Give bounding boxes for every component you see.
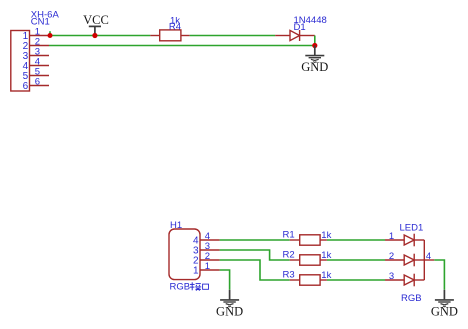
connector H1 body [169,229,200,280]
wire R2 to LED1 pin2 [327,259,385,261]
svg-text:4: 4 [426,251,431,262]
wire stub above pin1 junction [49,31,51,35]
LED1 blue diode element [385,274,424,287]
wire H1 pin3 to R2 (dogleg) [220,250,290,260]
H1 pin 2 [193,251,220,266]
junction at CN1 pin1 [48,33,53,38]
H1 pin 3 [193,241,220,256]
resistor R4 [150,30,189,41]
svg-text:1: 1 [205,261,210,272]
LED1 common cathode bus [423,240,425,280]
svg-text:VCC: VCC [83,13,109,27]
LED1 green diode element [385,254,424,267]
ground GND (right) [431,290,458,319]
svg-text:RGB: RGB [170,282,191,293]
svg-text:R1: R1 [283,230,295,241]
svg-text:GND: GND [301,60,328,74]
ground GND (top) [301,46,328,74]
CN1 pin 4 [23,57,49,73]
CN1 pin 1 [23,27,49,43]
wire H1 pin4 to R1 [220,239,290,241]
svg-text:6: 6 [23,81,29,92]
LED1 red diode element [385,234,424,247]
svg-text:R3: R3 [283,270,295,281]
wire R1 to LED1 pin1 [327,239,385,241]
wire H1 pin1 to ground [220,270,230,290]
resistor R2 [290,255,327,265]
svg-text:GND: GND [431,304,458,318]
svg-text:D1: D1 [294,22,306,33]
svg-text:R4: R4 [169,21,181,32]
resistor R1 [290,235,327,245]
diode D1 1N4448 [275,30,315,41]
resistor R3 [290,275,327,285]
connector CN1 body (XH-6A) [11,31,30,92]
wire CN1 pin2 to GND net [49,45,315,47]
H1 label RGB接口 [170,282,209,293]
H1 pin 4 [193,231,220,246]
H1 pin 1 [193,261,220,276]
wire H1 pin2 to R3 (dogleg) [220,260,290,280]
junction at D1 cathode / pin2 net [312,43,317,48]
svg-text:RGB: RGB [401,293,422,304]
svg-text:1: 1 [193,266,199,277]
power symbol VCC [83,13,109,36]
CN1 pin 2 [23,37,49,53]
CN1 pin 5 [23,67,49,83]
svg-text:CN1: CN1 [31,17,50,28]
svg-text:LED1: LED1 [400,222,424,233]
junction at VCC [92,33,97,38]
svg-text:6: 6 [35,77,40,88]
CN1 pin 6 [23,77,49,93]
svg-text:H1: H1 [170,220,182,231]
wire R3 to LED1 pin3 [327,279,385,281]
wire R4 to D1 [190,35,276,37]
wire LED1 pin4 to ground [434,260,444,290]
wire CN1 pin1 to R4 [49,35,150,37]
CN1 pin 3 [23,47,49,63]
wire D1 cathode down to GND net [314,36,316,46]
ground GND (below H1) [216,290,243,319]
LED1 pin 4 lead [424,259,434,261]
svg-text:GND: GND [216,304,243,318]
svg-text:R2: R2 [283,250,295,261]
